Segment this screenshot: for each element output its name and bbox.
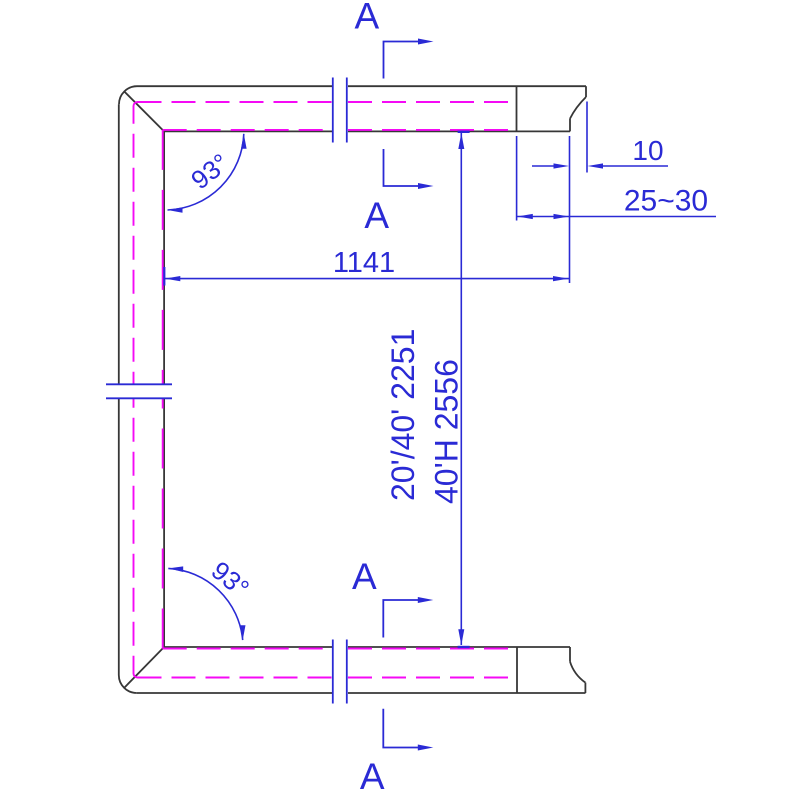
inner left edge lower segment (163, 399, 165, 648)
top-left outer corner arc (119, 86, 137, 104)
svg-text:A: A (364, 195, 389, 236)
neutral axis dashed line: bottom left segment (138, 677, 333, 679)
inner surface dashed overlay: top left horizontal (163, 129, 332, 131)
dimension line 10 right part (600, 165, 668, 167)
svg-text:1141: 1141 (333, 247, 395, 279)
neutral axis dashed line: top-left corner + left upper (134, 102, 138, 384)
neutral axis dashed line: top left segment (138, 101, 333, 103)
vertical dimension line 2251/2556 (460, 132, 462, 645)
section cut tick top right (346, 78, 348, 143)
arrowhead top arc upper end (241, 134, 247, 149)
neutral axis dashed line: left lower + bottom-left corner (134, 399, 138, 678)
top end plate line (516, 86, 518, 131)
arrowhead of top lower bracket (418, 183, 434, 189)
arrowhead of bottom upper bracket (418, 597, 434, 603)
bottom-left outer corner arc (119, 675, 137, 693)
svg-text:A: A (355, 0, 380, 37)
arrowhead 1141 right (553, 276, 569, 281)
inner surface dashed overlay: left web upper (162, 130, 164, 384)
svg-text:25~30: 25~30 (624, 185, 708, 218)
bottom end inner vertical (569, 647, 571, 662)
extension line at end plate x=516.6 (516, 136, 518, 221)
inner surface dashed overlay: bottom right horizontal (348, 648, 514, 650)
angle arc top 93 (168, 134, 244, 210)
arrowhead vertical dim top (458, 133, 464, 149)
inner top edge left segment (164, 130, 332, 132)
outer bottom edge left segment (137, 692, 332, 694)
section cut tick web upper (106, 383, 172, 385)
inner surface dashed overlay: top right horizontal (348, 129, 514, 131)
outer left edge lower segment (118, 399, 120, 676)
section cut tick bottom right (346, 640, 348, 704)
svg-text:A: A (360, 756, 385, 797)
arrowhead top arc lower end (168, 207, 183, 213)
svg-text:93°: 93° (185, 147, 234, 195)
top end inner vertical (569, 119, 571, 132)
section arrow bracket bottom upper (383, 600, 419, 638)
arrowhead of top upper bracket (418, 39, 434, 45)
inner left edge upper segment (163, 131, 165, 384)
bottom-left corner bend diagonal (124, 647, 164, 688)
landing tick at top arrow of vertical dimension (458, 131, 470, 133)
arrowhead of bottom lower bracket (418, 745, 434, 751)
svg-text:40'H 2556: 40'H 2556 (429, 359, 465, 504)
bottom end outer vertical (584, 683, 586, 693)
neutral axis dashed line: top right segment (348, 101, 514, 103)
section cut tick web lower (106, 397, 172, 399)
arrowhead vertical dim bottom (458, 629, 464, 645)
svg-text:A: A (352, 556, 377, 597)
neutral axis dashed line: bottom right segment (348, 677, 514, 679)
top end curl arc (570, 97, 586, 119)
section arrow bracket top lower (384, 149, 420, 186)
bottom end plate line (516, 647, 518, 693)
top-left corner bend diagonal (124, 92, 164, 132)
section cut tick top left (332, 78, 334, 143)
section arrow bracket bottom lower (383, 709, 419, 748)
arrowhead 10 pointing right at x=569.5 (554, 163, 570, 168)
arrowhead bottom arc upper end (168, 566, 183, 572)
dimension line 1141 (165, 278, 570, 280)
arrowhead 25~30 pointing right at x=569.5 (554, 214, 570, 219)
inner surface dashed overlay: left web lower (162, 399, 164, 649)
arrowhead bottom arc lower end (240, 625, 246, 640)
svg-text:93°: 93° (206, 555, 255, 603)
dimension line 25~30 (517, 216, 716, 218)
section cut tick bottom left (332, 640, 334, 704)
arrowhead 1141 left (165, 276, 181, 281)
top end outer vertical (585, 86, 587, 97)
bottom end curl arc (570, 662, 585, 683)
section arrow bracket top upper (384, 42, 420, 79)
extension line at inner end tip x=569.5 (569, 136, 571, 283)
angle arc bottom 93 (168, 568, 242, 640)
inner surface dashed overlay: bottom left horizontal (163, 648, 332, 650)
outer top edge right segment (348, 85, 586, 87)
dimension line 10 left part (532, 165, 556, 167)
outer bottom edge right segment (348, 692, 586, 694)
landing tick at bottom arrow of vertical dimension (458, 646, 470, 648)
inner top edge right segment (348, 130, 570, 132)
svg-text:20'/40' 2251: 20'/40' 2251 (385, 329, 421, 501)
outer top edge left segment (137, 85, 332, 87)
extension overlap of 1141 on web inner line (163, 267, 165, 286)
inner bottom edge left segment (164, 646, 332, 648)
svg-text:10: 10 (632, 135, 663, 166)
outer left edge upper segment (118, 104, 120, 384)
arrowhead 25~30 pointing left at x=517 (517, 214, 533, 219)
arrowhead 10 pointing left at x=587 (588, 163, 604, 168)
inner bottom edge right segment (348, 646, 570, 648)
extension line at outer end tip x=587 (586, 102, 588, 173)
